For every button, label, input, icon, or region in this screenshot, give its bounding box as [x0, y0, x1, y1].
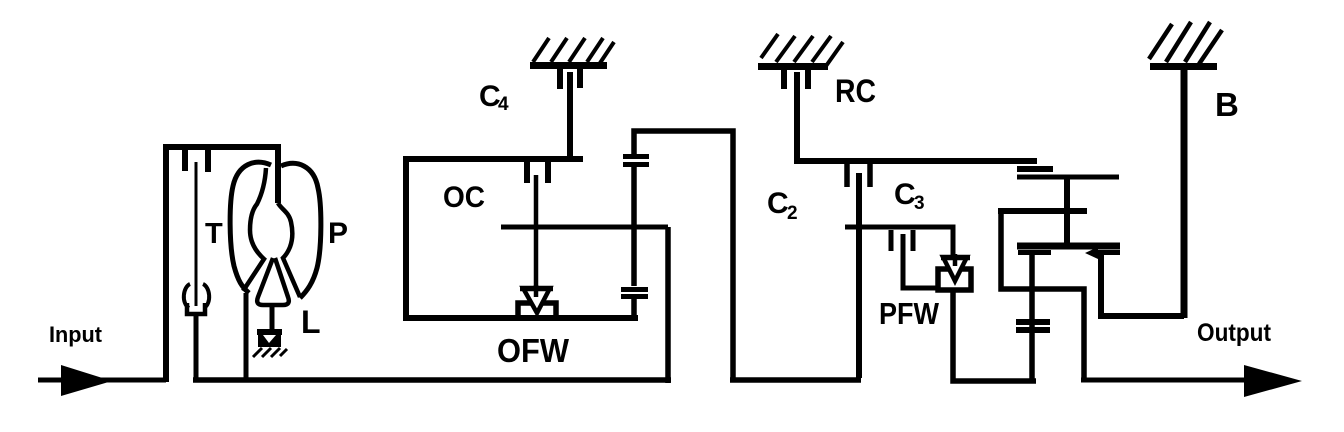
- wire top link line: [634, 131, 733, 380]
- gear sun bar: [1017, 243, 1120, 250]
- stator one-way clutch body: [258, 335, 281, 347]
- wire link mid segment: [631, 166, 637, 286]
- wire plate leg with coupling: [1029, 255, 1035, 381]
- wire carrier bracket left: [1001, 211, 1084, 380]
- clutch RC hub: [797, 72, 1037, 161]
- clutch RC ground hatching: [761, 34, 843, 66]
- one-way clutch OFW arrow: [523, 288, 550, 313]
- clutch C4 ground bar: [530, 62, 607, 69]
- wire brake leg to B: [1101, 255, 1184, 316]
- output arrow: [1244, 365, 1302, 397]
- pump P outer shell right: [281, 163, 321, 298]
- clutch C3 plate ticks: [889, 230, 894, 251]
- svg-text:P: P: [328, 217, 348, 250]
- clutch plates lower on link (OFW outer race): [621, 287, 648, 292]
- wire front drum line: [1017, 175, 1119, 180]
- lock-up clutch hub shaft: [195, 162, 198, 306]
- svg-text:L: L: [301, 304, 321, 340]
- svg-text:C: C: [894, 178, 916, 211]
- damper L left arc: [184, 284, 190, 308]
- brake B ground hatching: [1149, 22, 1222, 64]
- svg-text:PFW: PFW: [879, 296, 940, 331]
- one-way clutch PFW arrow: [943, 257, 967, 281]
- wire output bus: [1081, 378, 1250, 383]
- coupling plates on leg: [1016, 319, 1050, 325]
- clutch C4 hub shaft: [567, 72, 573, 159]
- one-way clutch PFW pedestal: [938, 269, 971, 290]
- svg-text:B: B: [1215, 86, 1239, 123]
- one-way arrow under sun bar right: [1085, 247, 1098, 259]
- clutch OC drum box: [406, 159, 638, 318]
- clutch RC ground bar: [758, 63, 828, 70]
- brake B ground bar: [1150, 63, 1217, 70]
- clutch plates upper on link: [623, 154, 649, 159]
- converter input shaft into torus: [275, 147, 281, 203]
- wire input shaft: [38, 378, 166, 383]
- clutch RC plate ticks: [781, 70, 787, 89]
- wire main bus segment 3: [730, 377, 861, 383]
- wire main bus segment 2: [193, 377, 671, 383]
- clutch OC hub arrow shaft: [534, 175, 539, 296]
- svg-text:Input: Input: [49, 322, 103, 347]
- wire converter housing top rail: [163, 144, 281, 150]
- clutch plate lower-left under sun bar: [1018, 250, 1051, 255]
- stator ground hatching: [253, 348, 287, 357]
- damper L right arc: [203, 284, 209, 308]
- svg-text:RC: RC: [835, 73, 876, 109]
- clutch plate below RC rail end: [1017, 166, 1053, 172]
- svg-text:4: 4: [498, 94, 509, 115]
- damper cup: [187, 303, 205, 314]
- wire ring stub line: [998, 208, 1087, 214]
- svg-text:3: 3: [914, 193, 925, 214]
- turbine T inner left: [243, 168, 266, 291]
- svg-text:2: 2: [787, 203, 798, 224]
- wire sun shaft vertical: [1064, 177, 1070, 245]
- wire pump leg to bus: [244, 293, 249, 380]
- stator triangle: [257, 258, 289, 305]
- svg-text:C: C: [767, 187, 789, 220]
- stator one-way clutch bar: [257, 329, 282, 335]
- clutch C4 ground hatching: [533, 38, 614, 66]
- turbine T inner right: [278, 203, 300, 297]
- svg-text:Output: Output: [1197, 319, 1272, 347]
- clutch C2 plate ticks: [844, 164, 850, 187]
- svg-text:OC: OC: [443, 181, 485, 214]
- wire turbine output down: [194, 314, 199, 380]
- lock-up clutch plate ticks: [182, 149, 188, 171]
- stator shaft down: [270, 305, 275, 331]
- clutch C2 hub shaft: [856, 173, 862, 378]
- clutch C4 plate ticks: [557, 69, 563, 89]
- svg-text:OFW: OFW: [497, 332, 570, 369]
- svg-text:T: T: [205, 218, 223, 250]
- wire link bottom segment: [631, 298, 637, 318]
- wire C2 hub rail: [845, 227, 953, 258]
- clutch OC plate ticks: [524, 162, 530, 183]
- brake B vertical: [1181, 68, 1188, 318]
- wire riser bus to OC hub: [665, 227, 671, 383]
- wire OC hub rail: [501, 225, 668, 230]
- pump P outer shell left: [230, 162, 271, 293]
- input arrow: [61, 365, 112, 396]
- clutch plate lower-right under sun bar: [1097, 250, 1120, 255]
- clutch C3 hub: [903, 234, 938, 288]
- wire converter housing left: [163, 144, 169, 382]
- one-way clutch OFW pedestal: [518, 303, 556, 318]
- wire PFW leg down: [953, 290, 1036, 381]
